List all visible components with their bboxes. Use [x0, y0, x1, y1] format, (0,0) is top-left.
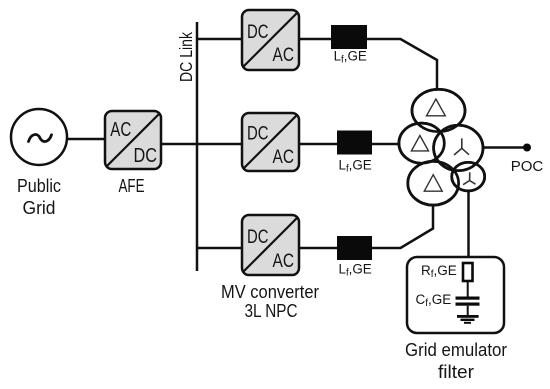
- svg-text:DC: DC: [247, 22, 269, 43]
- svg-text:AC: AC: [273, 147, 295, 168]
- svg-text:DC: DC: [247, 227, 269, 248]
- svg-text:Grid emulator: Grid emulator: [405, 339, 507, 360]
- svg-text:AFE: AFE: [119, 175, 145, 196]
- svg-text:DC Link: DC Link: [176, 32, 196, 82]
- svg-text:Public: Public: [17, 175, 61, 196]
- svg-text:AC: AC: [110, 119, 131, 141]
- svg-text:Grid: Grid: [23, 197, 56, 218]
- svg-text:filter: filter: [438, 361, 474, 382]
- svg-text:Rf,GE: Rf,GE: [421, 263, 457, 280]
- svg-text:Lf,GE: Lf,GE: [339, 262, 372, 279]
- svg-text:MV converter: MV converter: [221, 281, 319, 302]
- svg-text:AC: AC: [273, 251, 295, 272]
- svg-text:DC: DC: [134, 145, 158, 167]
- svg-text:Lf,GE: Lf,GE: [334, 49, 367, 66]
- svg-text:3L NPC: 3L NPC: [245, 300, 298, 321]
- svg-text:AC: AC: [273, 45, 295, 66]
- svg-text:Lf,GE: Lf,GE: [339, 157, 372, 174]
- svg-text:Cf,GE: Cf,GE: [416, 292, 452, 309]
- svg-text:POC: POC: [511, 158, 544, 175]
- svg-text:DC: DC: [247, 124, 269, 145]
